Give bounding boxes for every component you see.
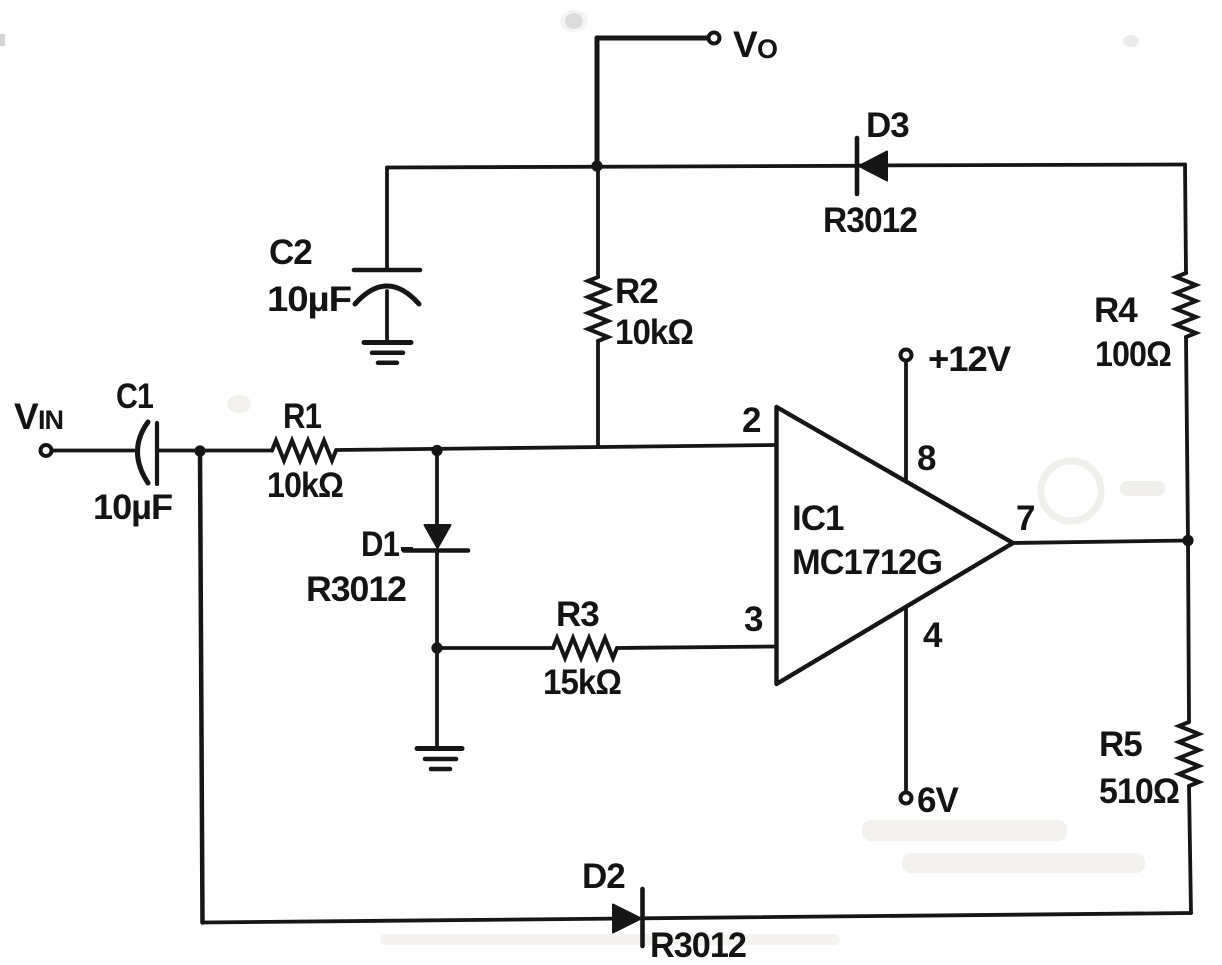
- wire: D1 branch lower to R3 node: [435, 550, 439, 648]
- svg-text:510Ω: 510Ω: [1099, 772, 1179, 811]
- terminal +12V: [901, 350, 912, 361]
- wire: right vertical middle (R4 to R5 through output node): [1186, 337, 1189, 722]
- svg-text:10kΩ: 10kΩ: [267, 466, 343, 505]
- svg-text:R3012: R3012: [823, 201, 918, 240]
- diode D2 triangle: [613, 905, 641, 933]
- ground below C2: [364, 340, 411, 345]
- wire: R2 branch upper: [596, 166, 600, 277]
- wire: top rail right segment (D3 to right corner): [859, 165, 1185, 166]
- svg-text:R3: R3: [556, 595, 599, 634]
- label D1 dash: [401, 547, 413, 551]
- svg-text:6V: 6V: [917, 781, 959, 820]
- terminal VO: [709, 33, 720, 44]
- node: junction dot R3/ground: [431, 642, 442, 653]
- svg-text:10kΩ: 10kΩ: [615, 313, 693, 352]
- resistor R3: [553, 638, 617, 658]
- wire: R1 to op-amp pin 2: [336, 445, 776, 450]
- diode D2 cathode bar: [640, 889, 645, 946]
- diode D1 triangle: [425, 525, 451, 548]
- resistor R1: [272, 441, 336, 461]
- svg-text:D1: D1: [361, 525, 399, 564]
- capacitor C1 curved plate: [138, 422, 149, 483]
- svg-text:D3: D3: [866, 106, 909, 145]
- wire: right vertical top (rail corner to R4): [1185, 165, 1186, 274]
- svg-text:3: 3: [744, 600, 763, 639]
- wire: VIN lead to C1: [53, 449, 134, 453]
- svg-text:+12V: +12V: [928, 340, 1012, 379]
- svg-text:MC1712G: MC1712G: [792, 543, 942, 582]
- terminal 6V: [901, 793, 912, 804]
- node: junction dot input: [194, 445, 205, 456]
- diode D1 cathode bar: [404, 548, 468, 553]
- wire: bottom rail right of D2: [642, 913, 1191, 918]
- svg-text:IN: IN: [38, 405, 63, 435]
- wire: C2 top lead: [385, 168, 389, 270]
- wire: R3 node down to ground: [435, 648, 439, 745]
- svg-text:R5: R5: [1099, 725, 1142, 764]
- svg-text:O: O: [757, 34, 777, 64]
- capacitor C2 top plate: [354, 268, 420, 273]
- capacitor C1 straight plate: [155, 423, 159, 484]
- svg-text:8: 8: [917, 439, 936, 478]
- svg-text:R4: R4: [1094, 291, 1138, 330]
- svg-text:100Ω: 100Ω: [1095, 335, 1171, 374]
- svg-text:R2: R2: [615, 272, 658, 311]
- resistor R2: [588, 277, 608, 341]
- svg-text:10µF: 10µF: [93, 488, 173, 527]
- node: junction dot output: [1182, 535, 1193, 546]
- wire: Vo vertical drop: [595, 38, 600, 166]
- wire: R3 to op-amp pin 3: [617, 647, 776, 649]
- svg-text:D2: D2: [582, 857, 625, 896]
- terminal VIN: [41, 445, 52, 456]
- svg-text:R3012: R3012: [306, 570, 407, 609]
- wire: Vo horizontal stub: [597, 36, 707, 41]
- capacitor C2 curved plate: [355, 286, 419, 304]
- wire: bottom rail left of D2: [203, 919, 615, 923]
- svg-text:C1: C1: [116, 377, 153, 416]
- ground below D1: [417, 746, 462, 751]
- svg-text:7: 7: [1016, 499, 1034, 538]
- wire: R2 branch lower: [596, 341, 600, 447]
- svg-text:R3012: R3012: [650, 926, 747, 965]
- wire: op-amp output to node: [1013, 541, 1188, 544]
- wire: top rail left segment (C2 corner to D3 bar): [387, 166, 855, 168]
- svg-text:15kΩ: 15kΩ: [543, 663, 621, 702]
- wire: D1 branch upper: [435, 451, 439, 528]
- diode D3 cathode bar: [855, 138, 860, 194]
- wire: +12V lead to pin 8: [904, 362, 908, 480]
- svg-text:R1: R1: [283, 397, 321, 436]
- node: junction dot D1 branch: [431, 445, 442, 456]
- svg-text:C2: C2: [269, 233, 312, 272]
- wire: C2 bottom lead: [385, 291, 389, 341]
- svg-text:10µF: 10µF: [267, 280, 352, 319]
- diode D3 triangle: [859, 152, 887, 181]
- wire: node to R3: [437, 646, 553, 650]
- wire: left vertical from input node: [200, 451, 203, 923]
- svg-text:4: 4: [923, 616, 943, 655]
- node: junction dot at Vo/top rail: [591, 160, 602, 171]
- wire: C1 to R1: [159, 449, 272, 453]
- resistor R5: [1179, 722, 1199, 786]
- svg-text:IC1: IC1: [792, 499, 844, 538]
- op-amp U1 triangle: [777, 407, 1014, 684]
- svg-text:V: V: [733, 24, 758, 65]
- resistor R4: [1176, 273, 1196, 337]
- wire: right vertical bottom (R5 to bottom rail): [1189, 786, 1191, 913]
- svg-text:V: V: [14, 396, 39, 437]
- svg-text:2: 2: [742, 401, 761, 440]
- wire: pin 4 lead to 6V: [904, 607, 908, 791]
